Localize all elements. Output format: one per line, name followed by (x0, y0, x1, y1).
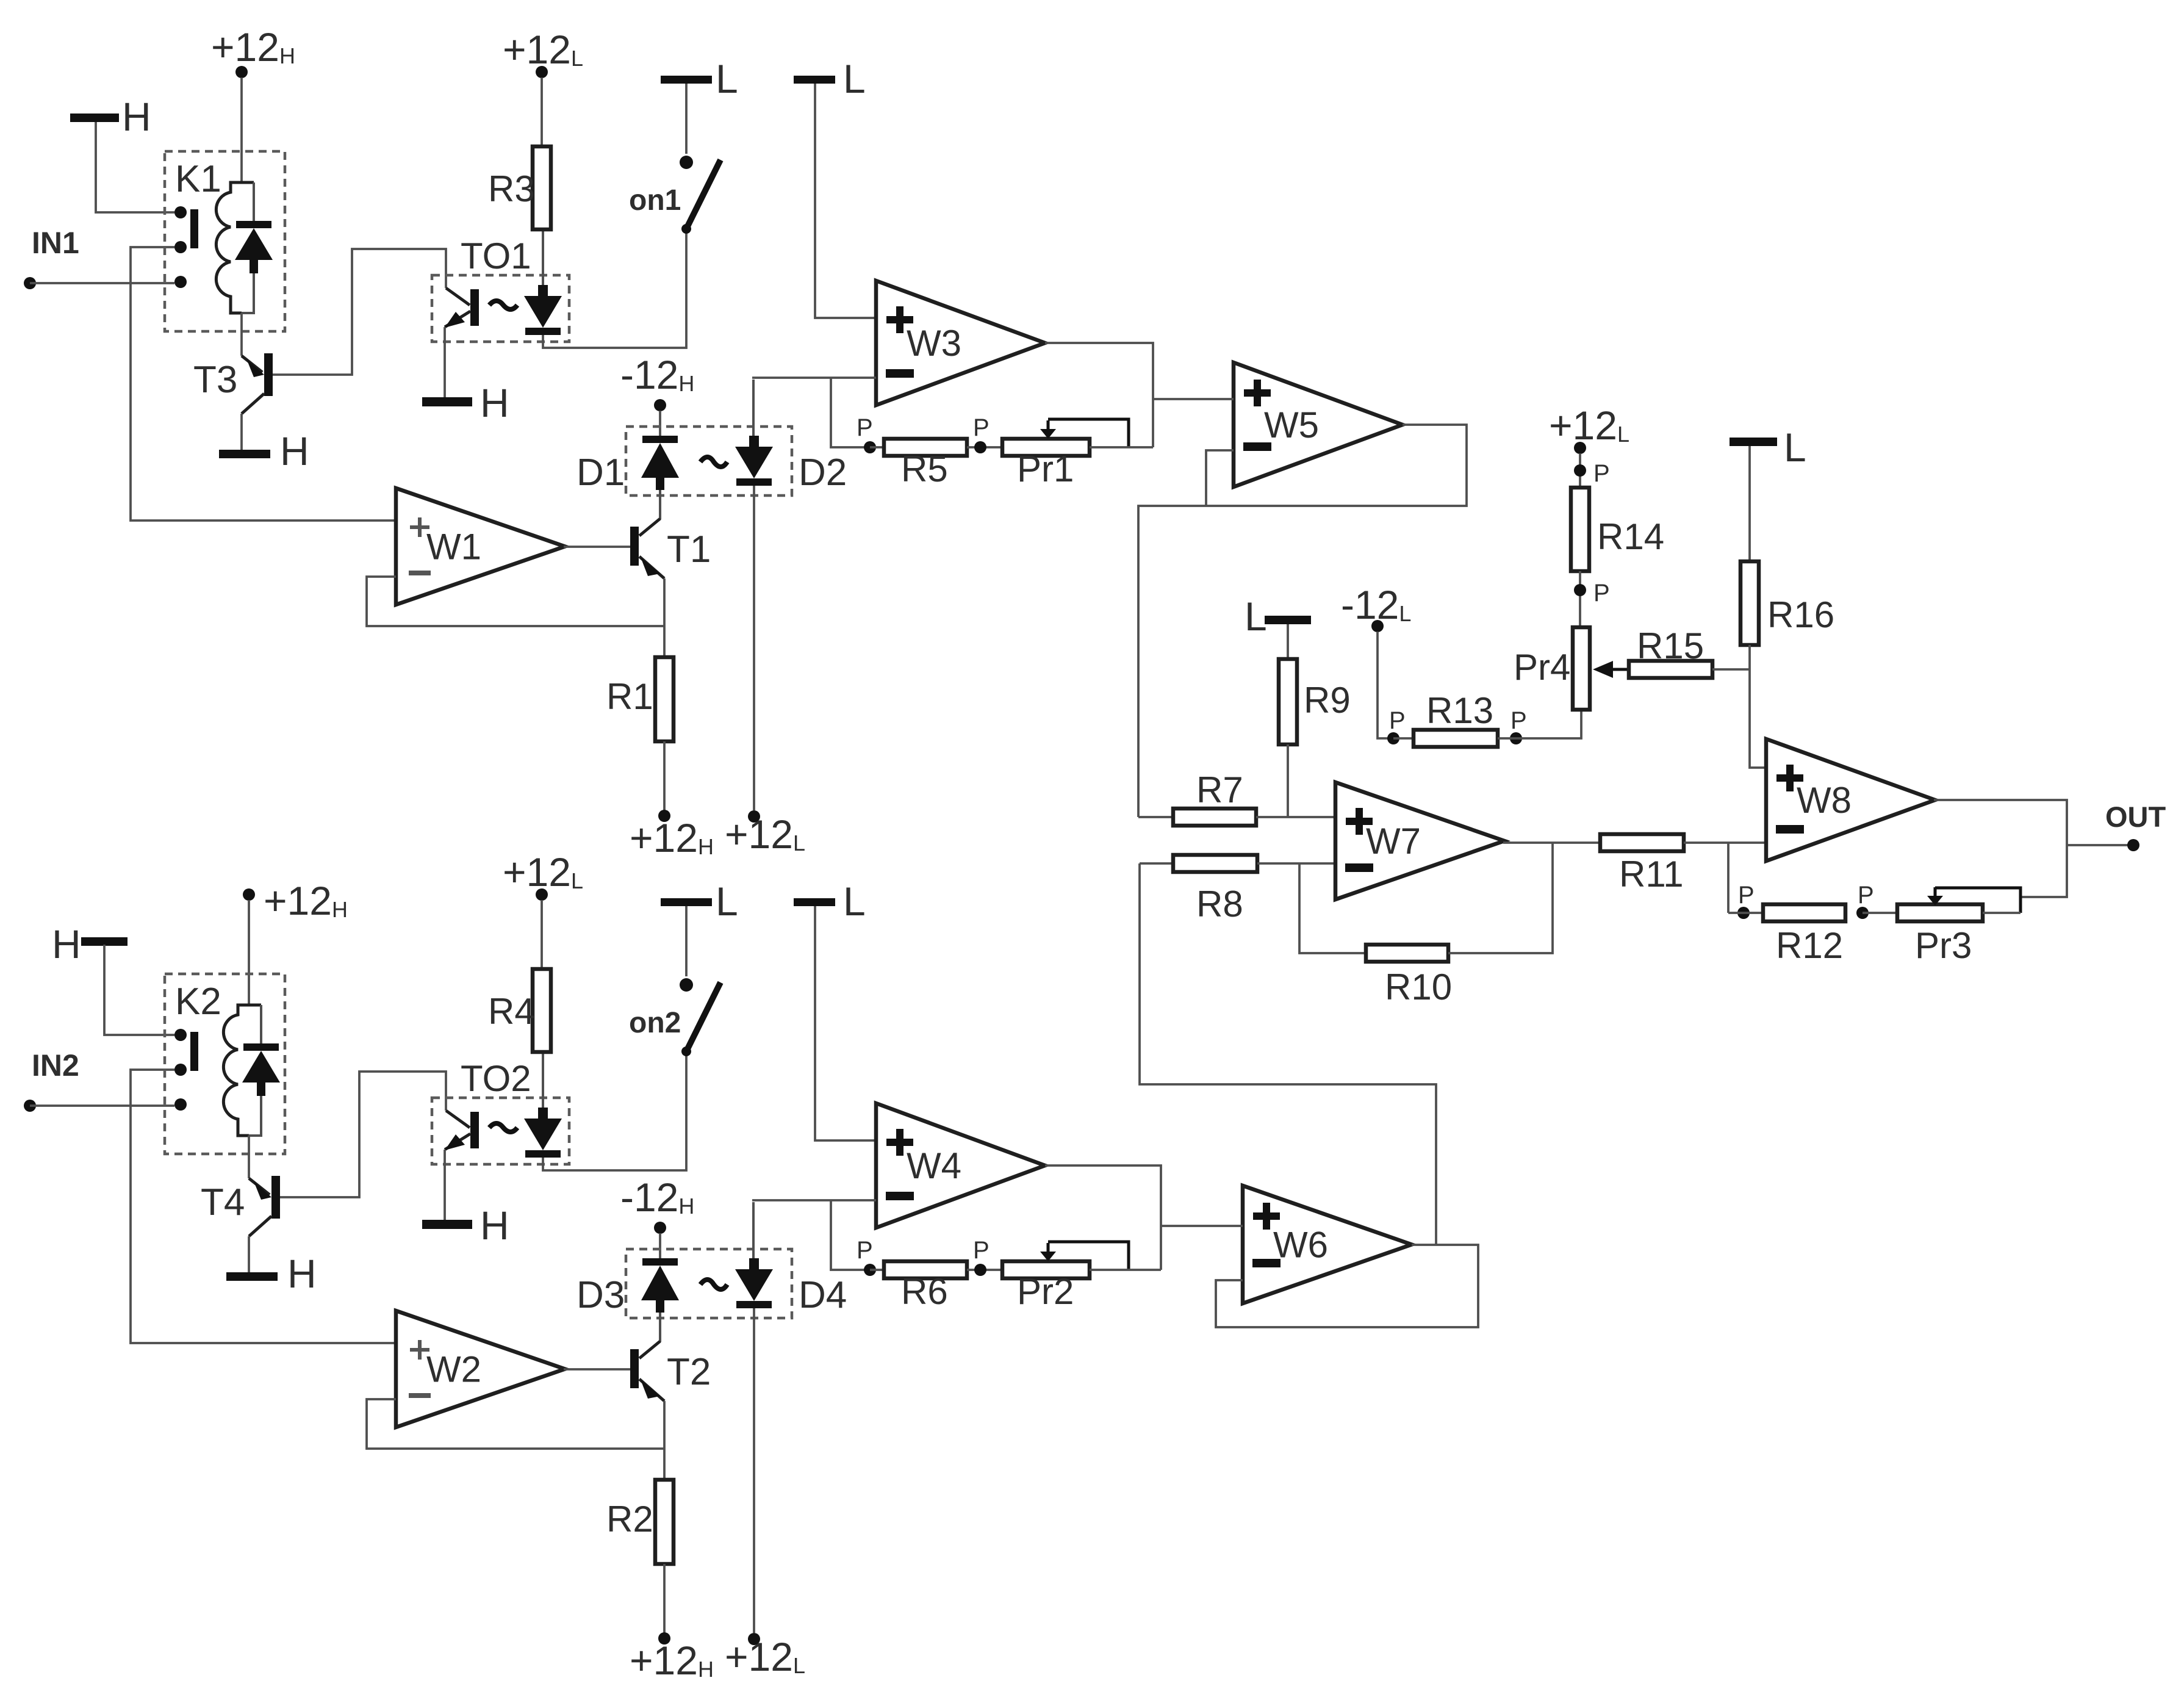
wire W1 output to T1 base (564, 546, 630, 548)
resistor R11 (1600, 834, 1684, 851)
svg-text:R14: R14 (1597, 516, 1664, 557)
svg-text:R8: R8 (1196, 884, 1243, 924)
svg-text:H: H (480, 380, 509, 425)
relay K2 coil (223, 1005, 249, 1136)
svg-text:W1: W1 (426, 527, 481, 567)
ground L (W4 + input) (794, 898, 835, 906)
optocoupler TO2 (dashed box) (432, 1098, 569, 1164)
relay K1 coil (216, 182, 242, 313)
svg-text:P: P (857, 1237, 873, 1264)
ground L (R16) (1730, 438, 1777, 446)
wire ground-H to relay contact 1 (96, 122, 174, 212)
wire D2 to +12L rail (753, 486, 755, 810)
wire R7 to W7 + input (1256, 816, 1335, 818)
svg-text:Pr4: Pr4 (1514, 647, 1570, 688)
svg-text:L: L (1245, 594, 1267, 639)
node P (R6 right) (967, 1269, 1002, 1271)
wire W3 - input (752, 376, 876, 379)
resistor R4 (533, 969, 551, 1052)
svg-text:H: H (480, 1203, 509, 1248)
svg-text:T2: T2 (667, 1351, 711, 1393)
optocoupler TO1 (dashed box) (432, 275, 569, 342)
op-amp W5 (1234, 362, 1403, 487)
svg-text:H: H (280, 428, 309, 474)
svg-text:R7: R7 (1196, 769, 1243, 810)
svg-text:D4: D4 (799, 1274, 847, 1316)
relay K1 flyback diode (231, 181, 254, 184)
optocoupler TO1 LED (542, 229, 544, 285)
relay K1 contacts (174, 206, 187, 218)
svg-text:W5: W5 (1264, 405, 1319, 445)
node P (R5 right) (967, 446, 1002, 449)
svg-text:D2: D2 (799, 452, 847, 494)
svg-text:R6: R6 (901, 1271, 948, 1312)
wire R15 to R16 column (1712, 668, 1750, 671)
svg-text:R3: R3 (488, 168, 535, 209)
wire W4 output/feedback (1045, 1165, 1161, 1270)
ground L (switch on2) (661, 898, 712, 906)
svg-text:K2: K2 (175, 981, 221, 1023)
wire D3 to T2 collector (641, 1313, 660, 1357)
ground H (TO2) (444, 1150, 446, 1220)
svg-text:P: P (1510, 707, 1527, 734)
wire K1 to transistor T3 (240, 313, 243, 356)
resistor R7 (1138, 816, 1173, 818)
diode pair D3/D4 (dashed box) (626, 1249, 792, 1318)
wire D1 to T1 collector (641, 490, 660, 535)
wire W6 feedback loop (1216, 1245, 1478, 1327)
wire T1 emitter to R1 (663, 578, 666, 657)
svg-text:R1: R1 (606, 676, 653, 717)
diode pair D1/D2 (dashed box) (626, 427, 792, 495)
svg-text:Pr3: Pr3 (1915, 925, 1972, 966)
wire R16 to W8 + input (1750, 645, 1766, 768)
wire ground L to W3 + input (815, 84, 876, 318)
svg-text:P: P (973, 414, 990, 441)
svg-text:OUT: OUT (2105, 801, 2166, 833)
resistor R15 (1629, 661, 1712, 678)
wire R2 to +12H rail (663, 1564, 666, 1633)
svg-text:L: L (1784, 425, 1806, 470)
potentiometer Pr4 (1573, 627, 1590, 710)
wire IN1 to relay contact 3 (30, 282, 174, 284)
resistor R10 (1366, 945, 1448, 962)
wire K2 to transistor T4 (248, 1136, 250, 1178)
svg-text:T1: T1 (667, 528, 711, 571)
svg-text:K1: K1 (175, 158, 221, 200)
svg-text:P: P (1593, 580, 1610, 607)
svg-text:L: L (843, 879, 866, 924)
ground H (K1 contact) (70, 113, 119, 122)
wire ground L to W4 + input (815, 906, 876, 1140)
resistor R5 (870, 446, 884, 449)
svg-text:D1: D1 (577, 452, 625, 494)
relay K2 contacts (174, 1029, 187, 1041)
wire W6 output to R8 (1140, 863, 1436, 1245)
wire W8 - input to R12 (1727, 843, 1730, 913)
wire W1 feedback (367, 577, 664, 626)
ground L (R9) (1265, 616, 1311, 624)
op-amp W8 (1766, 739, 1935, 861)
svg-text:R12: R12 (1776, 925, 1843, 966)
wire ground-H to relay contact 1 (104, 945, 174, 1035)
svg-text:R4: R4 (488, 991, 535, 1032)
potentiometer Pr1 (1002, 439, 1090, 456)
relay K1 (dashed box) (165, 151, 285, 331)
svg-text:T4: T4 (201, 1181, 245, 1223)
node P (below R14) (1579, 571, 1581, 627)
svg-text:on2: on2 (629, 1007, 681, 1039)
wire W8 output (1934, 800, 2067, 897)
svg-text:H: H (287, 1251, 317, 1296)
resistor R1 (655, 657, 674, 741)
svg-text:IN1: IN1 (32, 226, 79, 260)
svg-text:IN2: IN2 (32, 1048, 79, 1083)
wire R1 to +12H rail (663, 741, 666, 810)
wire D4 to +12L rail (753, 1308, 755, 1633)
svg-text:W7: W7 (1366, 821, 1421, 862)
resistor R12 (1728, 912, 1763, 914)
svg-text:R15: R15 (1637, 625, 1704, 666)
ground H (K2 contact) (81, 937, 128, 946)
svg-text:TO2: TO2 (461, 1058, 531, 1099)
resistor R2 (655, 1480, 674, 1564)
wire W2 feedback (367, 1399, 664, 1449)
svg-text:R11: R11 (1619, 854, 1684, 895)
svg-text:P: P (1593, 460, 1610, 487)
svg-text:R9: R9 (1304, 680, 1351, 721)
wire T3 base to optocoupler TO1 (273, 249, 446, 375)
wiper arrow Pr3 (1934, 887, 1937, 897)
supply +12H (relay K2 feed) (243, 888, 255, 901)
svg-text:R13: R13 (1426, 690, 1493, 731)
svg-text:P: P (1738, 882, 1755, 909)
node OUT (2067, 844, 2128, 846)
ground L (W3 + input) (794, 76, 835, 84)
ground H (TO1) (444, 327, 446, 397)
wire IN2 to relay contact 3 (30, 1104, 174, 1107)
wire -12L to R13 (1378, 632, 1393, 738)
relay K2 flyback diode (239, 1004, 262, 1007)
optocoupler TO2 LED (542, 1051, 544, 1108)
op-amp W4 (876, 1103, 1045, 1228)
node P (above R14) (1579, 453, 1581, 488)
op-amp W1 (396, 488, 565, 605)
resistor R16 (1740, 561, 1759, 645)
svg-text:H: H (122, 94, 151, 139)
relay K2 (dashed box) (165, 974, 285, 1154)
op-amp W7 (1335, 782, 1504, 899)
svg-text:P: P (973, 1237, 990, 1264)
wire TO1 LED to switch on1 (543, 231, 686, 348)
svg-text:R10: R10 (1385, 967, 1452, 1007)
svg-text:R2: R2 (606, 1499, 653, 1540)
wire W7 output to R11 (1503, 841, 1600, 844)
potentiometer Pr2 (1002, 1261, 1090, 1278)
wire W4 - input (752, 1199, 876, 1201)
wire R13 to Pr4 (1498, 710, 1581, 738)
op-amp W6 (1243, 1186, 1412, 1303)
svg-text:T3: T3 (193, 359, 237, 401)
wire R8 to W7 - input (1257, 862, 1335, 865)
svg-text:W8: W8 (1797, 780, 1852, 821)
wire relay contact 2 to W1 + input (131, 247, 396, 521)
resistor R14 (1571, 488, 1589, 571)
svg-text:L: L (716, 879, 738, 924)
svg-text:W4: W4 (907, 1145, 961, 1186)
ground L (switch on1) (661, 76, 712, 84)
wire relay contact 2 to W2 + input (131, 1070, 396, 1343)
resistor R9 (1279, 659, 1297, 744)
wire TO2 LED to switch on2 (543, 1053, 686, 1170)
resistor R13 (1393, 737, 1413, 740)
wire W2 output to T2 base (564, 1368, 630, 1371)
svg-text:R16: R16 (1767, 594, 1834, 635)
wire W5 feedback loop (1138, 425, 1467, 817)
wire W3 output/feedback (1045, 343, 1153, 447)
wire T4 base to optocoupler TO2 (280, 1072, 446, 1197)
wire Pr3 to W8 output (feedback) (1983, 912, 2021, 914)
ground H (T4 emitter) (248, 1236, 250, 1272)
wire W7 feedback via R10 (1299, 863, 1366, 953)
diode D4 (752, 1202, 755, 1258)
optocoupler TO1 phototransistor (470, 289, 479, 326)
diode D2 (752, 380, 755, 436)
diode D1 (642, 436, 678, 443)
wire R11 to W8 - input (1684, 841, 1766, 844)
svg-text:L: L (843, 56, 866, 101)
svg-text:D3: D3 (577, 1274, 625, 1316)
svg-text:P: P (1858, 882, 1874, 909)
svg-text:Pr1: Pr1 (1017, 449, 1074, 489)
resistor R8 (1140, 862, 1173, 865)
svg-text:H: H (52, 921, 81, 967)
svg-text:P: P (1389, 707, 1406, 734)
svg-text:TO1: TO1 (461, 236, 531, 276)
wiper arrow Pr4 (1593, 661, 1613, 678)
wire T2 emitter to R2 (663, 1401, 666, 1480)
svg-text:W6: W6 (1273, 1225, 1328, 1266)
wire W4 output to W6 + input (1161, 1225, 1243, 1227)
svg-text:W3: W3 (907, 323, 961, 364)
diode D3 (642, 1258, 678, 1266)
resistor R6 (870, 1269, 884, 1271)
svg-text:R5: R5 (901, 449, 948, 489)
svg-text:L: L (716, 56, 738, 101)
op-amp W2 (396, 1311, 565, 1427)
potentiometer Pr3 (1863, 912, 1897, 914)
svg-text:P: P (857, 414, 873, 441)
wire W3 output to W5 + input (1153, 398, 1234, 400)
wire R9 to W7 + input (1287, 744, 1289, 817)
svg-text:Pr2: Pr2 (1017, 1271, 1074, 1312)
ground H (T3 emitter) (240, 414, 243, 450)
resistor R3 (533, 146, 551, 229)
svg-text:W2: W2 (426, 1349, 481, 1390)
svg-text:on1: on1 (629, 184, 681, 217)
op-amp W3 (876, 281, 1045, 405)
optocoupler TO2 phototransistor (470, 1112, 479, 1148)
